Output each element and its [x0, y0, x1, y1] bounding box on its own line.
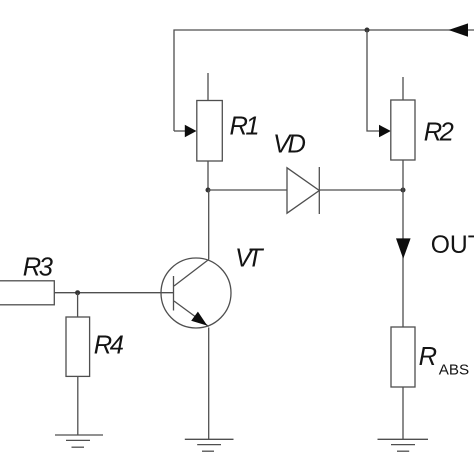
resistor R1 wiper arrow [185, 125, 197, 138]
diode VD triangle [287, 168, 319, 213]
resistor R2 wiper arrow [379, 125, 391, 138]
wire R1 wiper feed [174, 130, 186, 132]
resistor R4 body [66, 317, 90, 376]
svg-text:R3: R3 [23, 253, 53, 281]
ground (emitter) [185, 439, 234, 451]
wire output branch down [402, 190, 404, 327]
svg-text:R2: R2 [424, 119, 454, 147]
resistor R2 top stub [402, 77, 404, 100]
wire emitter down [208, 328, 210, 440]
transistor VT circle [161, 258, 231, 328]
svg-text:VT: VT [235, 244, 265, 272]
resistor R1 body [197, 101, 223, 162]
svg-text:R1: R1 [230, 113, 259, 141]
node A junction dot (R1 / diode / collector) [206, 188, 211, 193]
resistor R3 body (cut at left edge) [0, 281, 54, 305]
transistor VT base bar [173, 276, 175, 311]
resistor R1 top stub [207, 73, 209, 101]
wire RABS bottom lead [402, 387, 404, 439]
wire R3 to base [54, 292, 173, 294]
wire top supply rail [174, 30, 474, 131]
transistor VT emitter arrow [191, 312, 207, 326]
svg-text:R: R [419, 343, 437, 371]
svg-text:OUT: OUT [431, 232, 474, 259]
svg-text:VD: VD [273, 131, 306, 159]
wire R1 bottom lead [207, 161, 209, 190]
ground (RABS) [378, 439, 429, 451]
resistor RABS body [391, 327, 415, 387]
transistor VT emitter diagonal [174, 301, 209, 327]
wire R4 top lead [77, 293, 79, 317]
supply input arrow (left-pointing) [449, 23, 469, 36]
node supply junction dot [365, 28, 370, 33]
node C junction dot (R3 / R4 / base) [75, 290, 80, 295]
resistor R2 body [391, 100, 415, 160]
svg-text:R4: R4 [94, 331, 124, 359]
ground (R4) [55, 435, 103, 447]
wire R2 wiper drop [367, 30, 380, 131]
wire diode anode [208, 189, 287, 191]
diode VD cathode bar [318, 167, 320, 214]
svg-text:ABS: ABS [439, 362, 469, 379]
wire R4 bottom lead [77, 376, 79, 435]
transistor VT collector diagonal [174, 260, 209, 287]
wire collector lead [208, 190, 210, 260]
wire R2 bottom lead [402, 160, 404, 190]
wire diode cathode to node B [319, 189, 403, 191]
node B junction dot (diode / R2 / output) [401, 188, 406, 193]
output current direction arrow [396, 238, 411, 258]
